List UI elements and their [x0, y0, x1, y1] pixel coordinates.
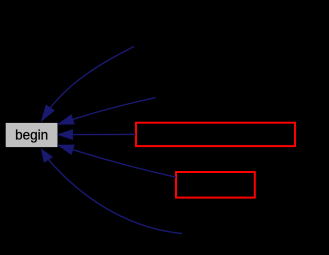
node red box 1: [136, 123, 295, 146]
node begin: [6, 123, 58, 147]
edge E3 horizontal from red box 1: [58, 130, 136, 140]
edge E4 from red box 2: [58, 145, 176, 177]
svg-text:begin: begin: [15, 127, 48, 142]
edge E5 curve bottom: [41, 149, 182, 234]
node red box 2: [176, 172, 255, 198]
edge E2: [58, 98, 156, 125]
edge E1 curve top: [41, 47, 134, 122]
